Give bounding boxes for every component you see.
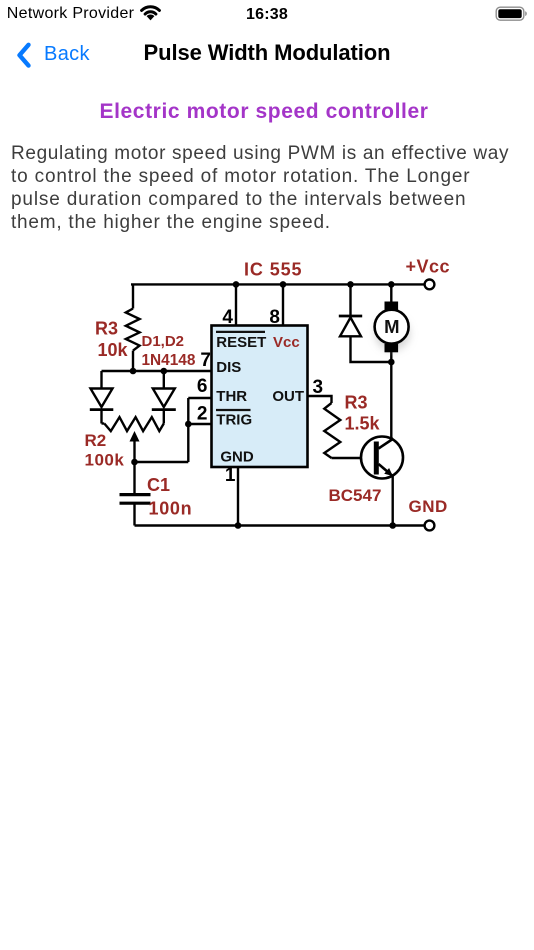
svg-text:7: 7 [200, 350, 211, 371]
svg-text:1: 1 [225, 465, 236, 486]
svg-text:TRIG: TRIG [216, 412, 252, 429]
svg-text:100k: 100k [85, 451, 125, 470]
svg-text:8: 8 [269, 307, 280, 328]
svg-text:+Vcc: +Vcc [406, 257, 451, 277]
svg-text:RESET: RESET [216, 334, 266, 351]
svg-text:D1,D2: D1,D2 [142, 333, 185, 350]
svg-text:C1: C1 [147, 475, 170, 495]
svg-text:M: M [384, 316, 399, 337]
svg-text:R3: R3 [95, 319, 118, 339]
svg-text:Vcc: Vcc [273, 334, 300, 351]
svg-text:2: 2 [197, 404, 208, 425]
svg-text:6: 6 [197, 376, 208, 397]
svg-text:OUT: OUT [272, 388, 304, 405]
svg-text:1.5k: 1.5k [345, 414, 381, 434]
svg-text:100n: 100n [149, 499, 193, 519]
svg-text:3: 3 [313, 377, 324, 398]
svg-text:GND: GND [220, 449, 254, 466]
svg-text:1N4148: 1N4148 [142, 352, 196, 369]
svg-text:10k: 10k [98, 340, 129, 360]
svg-text:4: 4 [222, 307, 233, 328]
svg-text:IC 555: IC 555 [244, 260, 302, 280]
svg-text:DIS: DIS [216, 359, 241, 376]
svg-text:GND: GND [409, 497, 448, 516]
svg-text:THR: THR [216, 388, 247, 405]
svg-text:R3: R3 [345, 393, 368, 413]
svg-text:BC547: BC547 [329, 486, 382, 505]
svg-text:R2: R2 [85, 431, 107, 450]
